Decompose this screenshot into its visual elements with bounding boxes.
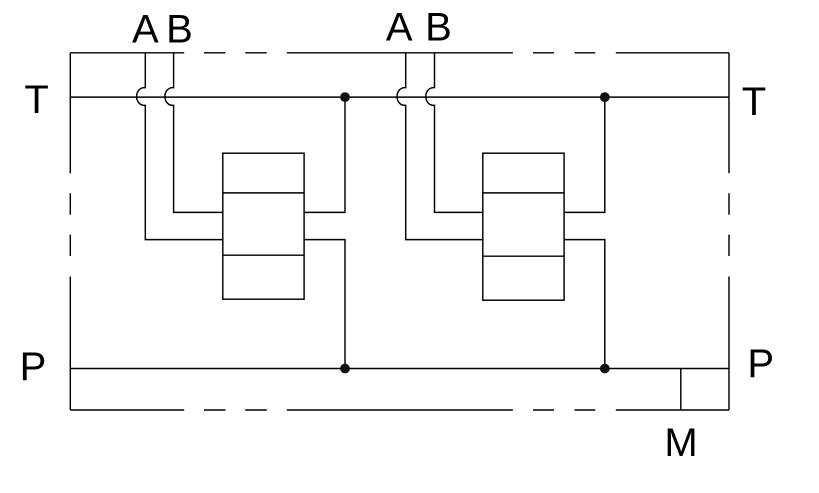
- junction dot: V1 branch on T line: [340, 92, 350, 102]
- svg-text:P: P: [20, 345, 47, 389]
- wire: valve V2 lower-right port to P line: [564, 240, 605, 369]
- wire: valve V2 upper-right port to T line: [564, 97, 605, 212]
- junction dot: V1 branch on P line: [340, 364, 350, 374]
- svg-text:B: B: [425, 6, 452, 50]
- enclosure border: right edge (long-dashed manifold boundary): [728, 53, 730, 410]
- valve V1 lower section divider: [223, 254, 304, 256]
- enclosure border: left edge (long-dashed manifold boundary): [69, 53, 71, 410]
- wire: port B2 line with crossover hop over T line, to valve V2 upper-left port: [426, 53, 483, 213]
- svg-text:M: M: [664, 421, 697, 465]
- wire: gauge port M stub from P line to bottom edge: [680, 369, 682, 411]
- junction dot: V2 branch on T line: [600, 92, 610, 102]
- wire: valve V1 upper-right port to T line: [304, 97, 345, 212]
- wire: port A1 line with crossover hop over T line, to valve V1 lower-left port: [137, 53, 223, 240]
- wire: P gallery line (pressure line across manifold): [70, 368, 729, 370]
- valve V2 upper section divider: [483, 192, 564, 194]
- valve V1 upper section divider: [223, 192, 304, 194]
- svg-text:A: A: [132, 7, 159, 51]
- svg-text:A: A: [386, 6, 413, 50]
- wire: port A2 line with crossover hop over T line, to valve V2 lower-left port: [397, 53, 483, 240]
- junction dot: V2 branch on P line: [600, 364, 610, 374]
- valve V1 body (three-section cartridge envelope): [223, 153, 304, 299]
- valve V2 lower section divider: [483, 255, 564, 257]
- enclosure border: bottom edge (long-dashed manifold boundary): [70, 409, 729, 411]
- valve V2 body (three-section cartridge envelope): [483, 153, 564, 300]
- enclosure border: top edge (long-dashed manifold boundary): [70, 52, 729, 54]
- wire: port B1 line with crossover hop over T line, to valve V1 upper-left port: [165, 53, 223, 213]
- wire: valve V1 lower-right port to P line: [304, 240, 345, 369]
- svg-text:T: T: [24, 78, 48, 122]
- svg-text:T: T: [742, 80, 766, 124]
- wire: T gallery line (tank line across manifold): [70, 96, 729, 98]
- svg-text:P: P: [747, 342, 774, 386]
- svg-text:B: B: [166, 7, 193, 51]
